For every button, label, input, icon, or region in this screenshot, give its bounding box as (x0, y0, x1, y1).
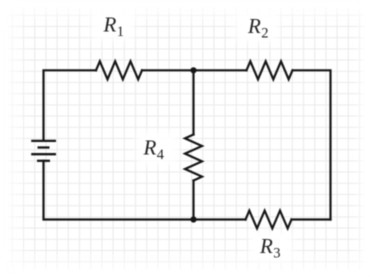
svg-text:R: R (143, 135, 157, 159)
wire R4 to node B (192, 181, 194, 220)
label R4 (143, 135, 165, 163)
wire R2 to top-right corner and down right side (293, 70, 331, 219)
svg-text:3: 3 (273, 246, 280, 262)
resistor R1 (96, 61, 142, 79)
label R3 (259, 234, 281, 262)
wire node A to R2 (194, 69, 247, 71)
wire top-left: battery top to R1 (44, 70, 97, 140)
label halo R2 (236, 11, 278, 42)
wire node B to bottom-left corner and up to battery bottom (44, 161, 194, 220)
resistor R2 (247, 61, 293, 79)
svg-text:4: 4 (157, 147, 165, 163)
node A junction dot (190, 67, 196, 73)
wire node A to R4 (192, 70, 194, 134)
svg-text:1: 1 (117, 24, 124, 40)
battery B1 plate long lower (31, 153, 56, 155)
wire R3 to node B (194, 218, 246, 220)
label R1 (103, 12, 125, 40)
svg-text:R: R (259, 234, 273, 258)
battery B1 plate long top (31, 140, 56, 142)
label halo R3 (250, 231, 292, 261)
battery B1 plate short upper (38, 146, 50, 148)
wire bottom-right corner to R3 (292, 218, 331, 220)
label halo R4 (137, 132, 178, 164)
wire R1 to node A (142, 69, 194, 71)
node B junction dot (190, 216, 196, 222)
battery B1 plate short bottom (37, 160, 50, 162)
label R2 (247, 14, 269, 42)
svg-text:R: R (103, 12, 117, 36)
svg-text:R: R (247, 14, 261, 38)
label halo R1 (92, 9, 134, 40)
resistor R4 (185, 135, 202, 181)
svg-text:2: 2 (261, 26, 268, 42)
resistor R3 (246, 211, 292, 229)
